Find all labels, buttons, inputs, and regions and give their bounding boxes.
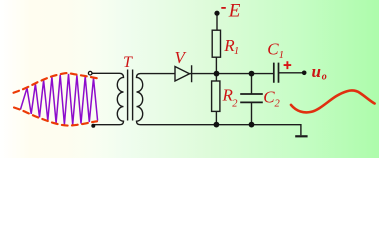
svg-text:V: V [175, 48, 188, 67]
svg-text:1: 1 [279, 50, 284, 61]
svg-text:o: o [322, 71, 327, 82]
svg-text:2: 2 [275, 98, 281, 109]
svg-text:1: 1 [234, 46, 239, 57]
svg-text:C: C [267, 40, 279, 59]
svg-text:T: T [123, 54, 133, 71]
svg-text:2: 2 [232, 98, 238, 109]
svg-text:u: u [312, 62, 321, 81]
svg-text:C: C [263, 88, 275, 107]
svg-text:E: E [228, 1, 241, 22]
